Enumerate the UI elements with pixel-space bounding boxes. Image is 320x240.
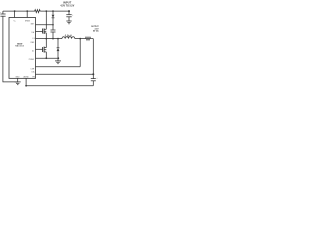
wire R2 to output corner bbox=[91, 38, 93, 40]
svg-text:V+: V+ bbox=[13, 21, 15, 23]
wire bottom ground rail bbox=[26, 85, 93, 87]
node boot cap LX junction bbox=[52, 38, 54, 40]
wire BST pin to bootstrap node bbox=[36, 24, 54, 26]
capacitor C4 input (polarized) bbox=[66, 11, 74, 21]
wire CSH pin run bbox=[36, 66, 81, 68]
svg-text:CSH: CSH bbox=[30, 68, 34, 70]
svg-text:PGND: PGND bbox=[29, 59, 35, 61]
wire SHDN pin drop bbox=[26, 11, 28, 17]
node output cap junction bbox=[92, 73, 94, 75]
transistor Q1 high-side N-FET bbox=[43, 28, 47, 34]
svg-text:+: + bbox=[96, 77, 98, 79]
wire Q2 source to PGND wire bbox=[45, 52, 47, 58]
node bottom rail junction bbox=[25, 85, 27, 87]
ground G3 below C4 bbox=[66, 21, 71, 24]
svg-text:+: + bbox=[72, 15, 74, 17]
svg-text:MAX1653: MAX1653 bbox=[15, 45, 25, 48]
svg-text:AGND: AGND bbox=[23, 76, 29, 79]
node Q1 source LX junction bbox=[45, 38, 47, 40]
node D1 anode junction bbox=[57, 57, 59, 59]
node CSH tap junction bbox=[79, 38, 81, 40]
svg-text:DL: DL bbox=[32, 51, 34, 53]
node Q1 drain rail junction bbox=[45, 10, 47, 12]
svg-text:GND: GND bbox=[15, 77, 20, 79]
diode D2 bootstrap bbox=[52, 11, 55, 30]
wire GND pin stub bbox=[17, 78, 19, 82]
ground G2 below D1 bbox=[55, 58, 61, 64]
resistor R1 (V+ filter) bbox=[34, 10, 41, 13]
wire V+ pin drop bbox=[14, 11, 16, 17]
svg-text:CSL: CSL bbox=[31, 71, 35, 73]
capacitor C1 (V+ bypass, polarized) bbox=[0, 11, 6, 16]
ground G1 below GND pin bbox=[15, 82, 21, 85]
node input terminal junction bbox=[68, 10, 70, 12]
op-amp U1 MAX1653 controller box bbox=[9, 18, 36, 79]
wire PGND pin to ground node bbox=[36, 57, 59, 59]
node SHDN pin junction bbox=[26, 10, 28, 12]
svg-text:DH: DH bbox=[32, 32, 35, 34]
capacitor C3 output (polarized) bbox=[91, 77, 99, 85]
wire DH pin to Q1 gate bbox=[36, 31, 43, 33]
svg-text:4.5V TO 5.5V: 4.5V TO 5.5V bbox=[60, 5, 74, 8]
svg-text:BST: BST bbox=[31, 23, 35, 25]
transistor Q2 low-side N-FET bbox=[43, 47, 47, 53]
wire C1 bottom to ground bbox=[3, 16, 18, 82]
wire CSL pin to output node bbox=[36, 73, 94, 75]
wire DL pin to Q2 gate bbox=[36, 48, 43, 50]
node boot diode rail junction bbox=[52, 10, 54, 12]
node D1 LX junction bbox=[57, 38, 59, 40]
capacitor C2 bootstrap bbox=[51, 30, 56, 39]
diode D1 catch Schottky bbox=[57, 39, 60, 59]
wire Q1 drain to rail bbox=[45, 11, 47, 29]
wire input rail left segment bbox=[3, 10, 34, 12]
svg-text:INPUT: INPUT bbox=[63, 1, 72, 4]
svg-text:SHDN: SHDN bbox=[25, 20, 31, 22]
wire output vertical bbox=[92, 39, 94, 79]
svg-text:6.8µH: 6.8µH bbox=[65, 33, 72, 37]
node V+ pin junction bbox=[14, 10, 16, 12]
resistor R2 current sense bbox=[85, 37, 91, 40]
svg-text:AT 2A: AT 2A bbox=[93, 29, 99, 32]
node Q2 source junction bbox=[45, 57, 47, 59]
svg-text:REF: REF bbox=[31, 42, 35, 44]
wire LX pin to inductor bbox=[36, 38, 63, 40]
wire L1 to sense resistor bbox=[75, 38, 85, 40]
wire CSH tap vertical bbox=[79, 39, 81, 67]
wire input rail right segment bbox=[41, 10, 69, 12]
inductor L1 bbox=[62, 37, 75, 39]
node BST junction bbox=[52, 24, 54, 26]
wire AGND pin to bottom rail bbox=[25, 78, 27, 85]
wire Q2 drain to LX node bbox=[45, 39, 47, 48]
wire Q1 source to LX node bbox=[45, 33, 47, 39]
